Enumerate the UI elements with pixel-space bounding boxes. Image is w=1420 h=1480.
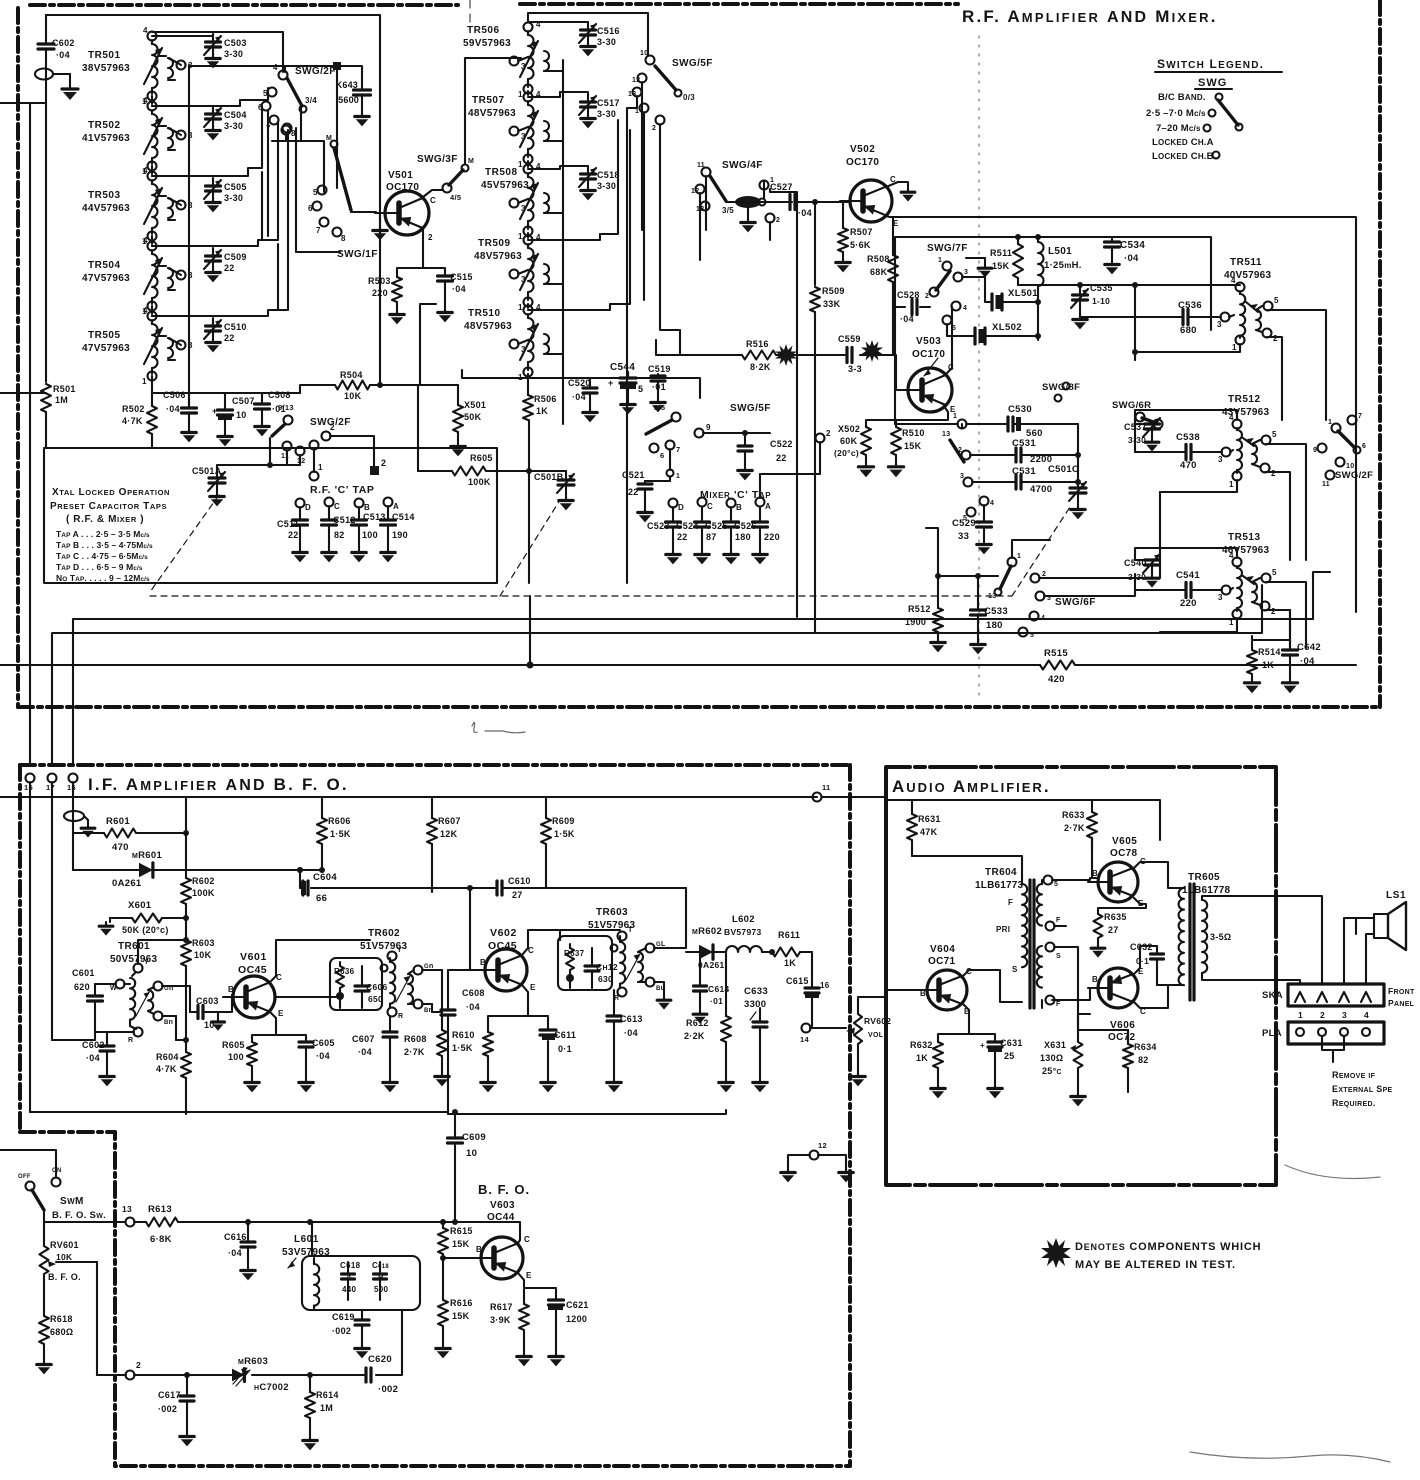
svg-text:B: B xyxy=(476,1245,482,1254)
svg-text:L602: L602 xyxy=(732,914,755,925)
svg-text:220: 220 xyxy=(1180,598,1197,609)
wire rotor to V501 base xyxy=(351,211,376,213)
svg-text:680Ω: 680Ω xyxy=(50,1327,73,1337)
wire TR512 pin4 top xyxy=(1135,410,1237,452)
capacitor C613 ·04 xyxy=(607,990,643,1078)
capacitor C501B trimmer xyxy=(529,471,574,496)
node mixer tap contacts D C B A xyxy=(669,429,832,512)
capacitor C602 ·04 xyxy=(82,1032,114,1072)
svg-text:48V57963: 48V57963 xyxy=(464,321,512,332)
svg-text:1: 1 xyxy=(1017,553,1021,560)
transistor V601 OC45 xyxy=(223,951,284,1018)
resistor R516 8·2K xyxy=(742,339,776,372)
switch SWG/1F rotor xyxy=(326,135,351,210)
svg-text:44V57963: 44V57963 xyxy=(82,203,130,214)
svg-text:SWG/6F: SWG/6F xyxy=(1055,597,1096,608)
wire TR506-510 coil bottom bus xyxy=(527,91,529,395)
svg-text:C559: C559 xyxy=(838,334,861,344)
svg-text:M: M xyxy=(326,135,332,142)
svg-text:C529: C529 xyxy=(952,518,976,529)
wire rotor common to C501A xyxy=(217,438,300,476)
svg-text:C518: C518 xyxy=(597,170,620,180)
svg-text:TAP B . . . 3·5 – 4·75Mc/s: TAP B . . . 3·5 – 4·75Mc/s xyxy=(56,540,153,550)
label R.F. C TAP xyxy=(310,484,375,496)
capacitor C509 22 trimmer xyxy=(204,248,247,282)
svg-text:SWM: SWM xyxy=(60,1196,84,1207)
svg-text:C540: C540 xyxy=(1124,558,1147,568)
wire V605 collector to output transformer xyxy=(1134,862,1182,888)
node terminal 16 xyxy=(67,774,78,793)
svg-text:0A261: 0A261 xyxy=(112,878,142,889)
svg-text:XTAL LOCKED OPERATION: XTAL LOCKED OPERATION xyxy=(52,487,170,498)
svg-text:C610: C610 xyxy=(508,876,531,886)
ground C501A xyxy=(210,492,224,506)
svg-text:·04: ·04 xyxy=(572,392,586,402)
wire V604 collector to primary xyxy=(963,970,1022,1002)
resistor R603 10K xyxy=(181,928,215,995)
resistor R612 2·2K xyxy=(684,952,731,1078)
svg-text:C601: C601 xyxy=(72,968,95,978)
resistor R635 27 xyxy=(1094,898,1147,944)
capacitor C522 22 xyxy=(738,433,793,466)
resistor R631 47K xyxy=(907,814,941,856)
svg-text:12: 12 xyxy=(818,1141,827,1150)
ground C501B xyxy=(559,496,573,510)
capacitor C527 ·04 xyxy=(770,182,848,218)
svg-text:1: 1 xyxy=(318,463,323,472)
svg-text:TR601: TR601 xyxy=(118,941,150,952)
capacitor C601 620 xyxy=(72,968,134,1032)
svg-text:LS1: LS1 xyxy=(1386,890,1406,901)
svg-text:R607: R607 xyxy=(438,816,461,826)
svg-text:3300: 3300 xyxy=(744,999,766,1010)
svg-text:·04: ·04 xyxy=(900,314,914,324)
svg-text:X502: X502 xyxy=(838,424,860,434)
svg-text:L601: L601 xyxy=(294,1234,319,1245)
ground C521 xyxy=(638,508,652,522)
svg-text:5: 5 xyxy=(263,89,268,98)
svg-text:CH12: CH12 xyxy=(596,962,618,972)
transformer TR504 47V57963 xyxy=(82,236,193,316)
svg-text:4: 4 xyxy=(143,26,148,35)
svg-text:+: + xyxy=(608,378,614,388)
resistor R608 2·7K xyxy=(404,970,447,1072)
svg-text:9: 9 xyxy=(1313,447,1317,454)
svg-text:1: 1 xyxy=(1229,480,1234,489)
inductor L601 53V57963 xyxy=(282,1234,420,1310)
svg-text:C509: C509 xyxy=(224,252,247,262)
svg-text:F: F xyxy=(1056,1001,1061,1008)
wire V503 collector up xyxy=(946,307,952,374)
svg-text:4: 4 xyxy=(990,500,994,507)
svg-text:4·7K: 4·7K xyxy=(156,1064,177,1074)
svg-text:C618: C618 xyxy=(340,1261,361,1270)
svg-text:3: 3 xyxy=(1218,455,1223,464)
svg-text:C533: C533 xyxy=(984,606,1008,617)
svg-text:C541: C541 xyxy=(1176,570,1200,581)
svg-text:220: 220 xyxy=(372,288,388,298)
wire L601 internal xyxy=(312,1222,362,1318)
svg-text:6·8K: 6·8K xyxy=(150,1234,172,1245)
svg-text:2: 2 xyxy=(1320,1010,1325,1020)
svg-text:C525: C525 xyxy=(705,521,728,531)
capacitor C621 1200 xyxy=(548,1300,589,1352)
svg-text:13: 13 xyxy=(988,593,996,600)
label SWG/4F xyxy=(722,160,763,171)
wire V603 base xyxy=(443,1257,472,1259)
capacitor C516 3-30 trimmer xyxy=(579,22,620,56)
svg-text:R631: R631 xyxy=(918,814,941,824)
capacitor C603 10 xyxy=(162,986,232,1040)
speaker LS1 xyxy=(1344,890,1406,982)
ground R635 xyxy=(1091,944,1105,958)
ground C603 xyxy=(212,1012,225,1031)
capacitor C609 10 xyxy=(448,1109,486,1222)
svg-text:R606: R606 xyxy=(328,816,351,826)
svg-text:4: 4 xyxy=(963,305,967,312)
svg-text:R.F. AMPLIFIER AND MIXER.: R.F. AMPLIFIER AND MIXER. xyxy=(962,7,1218,26)
svg-text:V501: V501 xyxy=(388,170,413,181)
wire emitter bias rail xyxy=(1078,1014,1128,1042)
svg-text:25°C: 25°C xyxy=(1042,1066,1062,1076)
capacitor C559 3-3 xyxy=(838,334,862,374)
inductor ferrite bead xyxy=(735,196,792,208)
transformer TR503 44V57963 xyxy=(82,166,193,246)
svg-text:5: 5 xyxy=(952,325,956,332)
wire RF section outer dash-dot border right xyxy=(1378,0,1382,707)
capacitor C513 100 xyxy=(352,507,386,548)
svg-text:TR602: TR602 xyxy=(368,928,400,939)
capacitor C517 3-30 trimmer xyxy=(579,94,620,128)
capacitor C632 0·1 xyxy=(1130,942,1168,985)
capacitor C606 650 xyxy=(355,966,388,1008)
wire TR511 pin1 down xyxy=(1132,344,1240,360)
svg-text:R618: R618 xyxy=(50,1314,73,1324)
svg-text:0·1: 0·1 xyxy=(1136,956,1149,966)
wire SWG/6F wiring xyxy=(1012,492,1160,596)
svg-text:C508: C508 xyxy=(268,390,291,400)
svg-text:87: 87 xyxy=(706,532,717,542)
svg-text:100: 100 xyxy=(362,530,378,540)
svg-text:B. F. O. SW.: B. F. O. SW. xyxy=(52,1210,106,1221)
capacitor C523 22 xyxy=(647,507,688,550)
wire SWM wiring xyxy=(0,1150,125,1222)
svg-text:RV602: RV602 xyxy=(864,1016,891,1026)
svg-text:B: B xyxy=(228,985,234,994)
svg-text:6: 6 xyxy=(1362,443,1366,450)
node terminal 15 xyxy=(24,774,35,793)
svg-text:C: C xyxy=(430,196,436,205)
ground bead xyxy=(741,208,755,232)
svg-text:2: 2 xyxy=(428,233,433,242)
svg-text:F: F xyxy=(1056,917,1061,924)
svg-text:1LB61773: 1LB61773 xyxy=(975,880,1024,891)
ground IF input xyxy=(81,824,95,838)
svg-text:33: 33 xyxy=(958,531,969,542)
svg-text:1: 1 xyxy=(1298,1010,1303,1020)
title AUDIO AMPLIFIER xyxy=(892,777,1051,796)
label SWG/8F xyxy=(1042,382,1080,402)
capacitor C508 ·01 xyxy=(255,390,291,422)
svg-text:1K: 1K xyxy=(536,406,548,416)
capacitor C507 10 electrolytic xyxy=(212,396,255,432)
transformer TR511 40V57963 xyxy=(1217,257,1279,352)
svg-text:SWG/4F: SWG/4F xyxy=(722,160,763,171)
svg-text:·002: ·002 xyxy=(332,1326,351,1336)
svg-text:R510: R510 xyxy=(902,428,925,438)
wire terminal 16 drop xyxy=(30,782,73,1112)
ground TR603 secondary xyxy=(657,996,671,1010)
capacitor C519 ·01 xyxy=(648,364,671,398)
capacitor C617 ·002 xyxy=(158,1375,194,1432)
capacitor C536 680 xyxy=(1080,300,1221,336)
capacitor C525 180 xyxy=(705,507,751,550)
svg-text:V605: V605 xyxy=(1112,836,1137,847)
svg-text:R615: R615 xyxy=(450,1226,473,1236)
svg-text:C619: C619 xyxy=(332,1312,355,1322)
transformer TR604 1LB61773 xyxy=(975,867,1061,1008)
wire V503 emitter legs xyxy=(866,406,948,427)
svg-text:OC170: OC170 xyxy=(846,157,879,168)
ground C619 xyxy=(355,1344,369,1358)
resistor X502 60K xyxy=(834,424,871,462)
svg-text:C503: C503 xyxy=(224,38,247,48)
wire V606 emitter xyxy=(1134,946,1157,974)
label SWG/2F right xyxy=(1335,470,1373,481)
svg-text:4: 4 xyxy=(1229,551,1234,560)
capacitor C515 ·04 xyxy=(438,272,473,308)
svg-text:V601: V601 xyxy=(240,951,267,963)
node terminal 14 xyxy=(800,1024,836,1045)
svg-text:4700: 4700 xyxy=(1030,484,1052,495)
svg-text:C521: C521 xyxy=(622,470,645,480)
svg-text:C514: C514 xyxy=(392,512,415,522)
svg-text:50K (20°c): 50K (20°c) xyxy=(122,925,169,935)
resistor R601 470 xyxy=(73,816,189,853)
svg-text:5600: 5600 xyxy=(338,95,359,105)
wire oscillator to TR511 pin4 xyxy=(1038,282,1240,360)
svg-text:OFF: OFF xyxy=(18,1174,31,1180)
svg-text:C611: C611 xyxy=(554,1030,576,1040)
svg-text:2: 2 xyxy=(1271,607,1276,616)
pencil mark artifact bottom right xyxy=(1190,1165,1390,1462)
svg-text:R512: R512 xyxy=(908,604,931,614)
capacitor C521 22 xyxy=(622,470,670,508)
svg-text:AUDIO AMPLIFIER.: AUDIO AMPLIFIER. xyxy=(892,777,1051,796)
svg-text:PRI: PRI xyxy=(996,925,1010,934)
svg-text:10K: 10K xyxy=(344,391,362,401)
wire C604 line to V602 xyxy=(460,887,686,889)
svg-text:·04: ·04 xyxy=(466,1002,480,1012)
svg-text:4: 4 xyxy=(273,63,278,72)
svg-text:D: D xyxy=(305,503,311,512)
svg-text:4: 4 xyxy=(1229,413,1234,422)
svg-text:TR605: TR605 xyxy=(1188,872,1220,883)
transistor V606 OC72 xyxy=(1088,967,1146,1043)
svg-text:R604: R604 xyxy=(156,1052,179,1062)
svg-text:2: 2 xyxy=(1273,334,1278,343)
svg-text:Y: Y xyxy=(144,959,149,966)
svg-text:·04: ·04 xyxy=(86,1053,100,1063)
svg-text:·002: ·002 xyxy=(378,1384,398,1395)
svg-text:R614: R614 xyxy=(316,1390,339,1400)
svg-text:22: 22 xyxy=(628,487,639,497)
thermistor X601 50K xyxy=(110,900,189,935)
svg-text:PRESET CAPACITOR TAPS: PRESET CAPACITOR TAPS xyxy=(50,501,167,512)
ground C523 xyxy=(666,550,680,564)
svg-text:C602: C602 xyxy=(52,38,75,48)
svg-text:2: 2 xyxy=(381,458,386,468)
svg-text:R514: R514 xyxy=(1258,647,1281,657)
transformer TR501 38V57963 xyxy=(82,26,193,106)
ground R605 xyxy=(245,1078,259,1092)
svg-text:C515: C515 xyxy=(450,272,473,282)
svg-text:R605: R605 xyxy=(222,1040,245,1050)
svg-text:440: 440 xyxy=(342,1285,356,1294)
svg-text:R609: R609 xyxy=(552,816,575,826)
wire oscillator supply rect xyxy=(895,234,1211,330)
svg-text:V603: V603 xyxy=(490,1200,515,1211)
svg-text:8: 8 xyxy=(341,234,346,243)
resistor R605 100 xyxy=(222,1040,257,1078)
svg-text:C602: C602 xyxy=(82,1040,105,1050)
transistor V605 OC78 xyxy=(1088,836,1146,908)
svg-text:R.F. 'C' TAP: R.F. 'C' TAP xyxy=(310,484,375,496)
resistor R616 15K xyxy=(438,1255,473,1344)
resistor R607 12K xyxy=(427,816,461,892)
capacitor C503 3-30 trimmer xyxy=(204,34,247,68)
ground C515 xyxy=(438,308,452,322)
ground C512 xyxy=(322,548,336,562)
svg-text:A: A xyxy=(393,502,399,511)
svg-text:10: 10 xyxy=(640,50,648,57)
svg-text:3-30: 3-30 xyxy=(224,121,243,131)
svg-text:C501A: C501A xyxy=(192,466,222,476)
svg-text:0A261: 0A261 xyxy=(698,960,725,970)
resistor R614 1M xyxy=(305,1375,339,1436)
svg-text:47V57963: 47V57963 xyxy=(82,273,130,284)
svg-text:·04: ·04 xyxy=(798,208,812,218)
svg-text:420: 420 xyxy=(1048,674,1065,685)
svg-text:C528: C528 xyxy=(897,290,920,300)
svg-text:I.F. AMPLIFIER AND B. F. O.: I.F. AMPLIFIER AND B. F. O. xyxy=(88,775,349,794)
svg-text:+: + xyxy=(212,406,218,416)
node terminal 12 xyxy=(810,1141,827,1160)
svg-text:100: 100 xyxy=(228,1052,244,1062)
node 2 mixer tap xyxy=(0,0,1,1)
svg-text:R610: R610 xyxy=(452,1030,475,1040)
resistor R506 1K xyxy=(523,394,557,420)
transformer TR508 45V57963 xyxy=(481,162,550,241)
svg-text:22: 22 xyxy=(677,532,688,542)
capacitor C544 5 electrolytic xyxy=(608,362,643,400)
transformer TR507 48V57963 xyxy=(468,90,550,169)
svg-text:11: 11 xyxy=(822,783,831,792)
ground aerial xyxy=(62,84,78,100)
wire R633 bias down xyxy=(1092,838,1096,878)
node terminal 17 xyxy=(46,774,57,793)
resistor R613 6·8K xyxy=(134,1204,458,1245)
svg-text:16: 16 xyxy=(820,981,830,990)
transistor V501 OC170 xyxy=(375,170,429,235)
capacitor C619 ·002 xyxy=(332,1312,369,1344)
capacitor C618A 440 xyxy=(340,1261,361,1300)
svg-text:1·5K: 1·5K xyxy=(330,829,351,839)
capacitor C505 3-30 trimmer xyxy=(204,178,247,212)
svg-text:C522: C522 xyxy=(770,439,793,449)
svg-text:C631: C631 xyxy=(1000,1038,1023,1048)
svg-text:Bn: Bn xyxy=(164,1019,173,1026)
ground RV602 xyxy=(851,1072,865,1086)
resistor R609 1·5K xyxy=(541,816,575,888)
capacitor C631 25 electrolytic xyxy=(980,1038,1023,1084)
svg-text:Y: Y xyxy=(397,947,402,954)
ground X631 xyxy=(1071,1092,1085,1106)
svg-text:1-10: 1-10 xyxy=(1092,296,1110,306)
wire terminal 12 grounds xyxy=(788,1155,846,1168)
svg-text:C617: C617 xyxy=(158,1390,181,1400)
svg-text:OC72: OC72 xyxy=(1108,1032,1135,1043)
svg-text:3-3: 3-3 xyxy=(848,364,862,374)
label SWG/6F xyxy=(1055,597,1096,608)
svg-text:LOCKED CH.B: LOCKED CH.B xyxy=(1152,151,1214,162)
wire V601 collector xyxy=(270,940,370,982)
wire V602 emitter xyxy=(488,985,548,1032)
svg-text:5: 5 xyxy=(313,188,318,197)
svg-text:T: T xyxy=(628,927,633,934)
wire input to left bus xyxy=(0,62,46,382)
transformer TR512 43V57963 xyxy=(1218,394,1277,489)
switch legend entries xyxy=(1146,92,1243,162)
ground C508 xyxy=(255,422,269,436)
transformer TR502 41V57963 xyxy=(82,96,193,176)
label SWG/2F xyxy=(295,66,336,77)
wire RF section outer dash-dot border top xyxy=(30,4,958,5)
svg-text:VOL: VOL xyxy=(868,1032,884,1039)
svg-text:R503: R503 xyxy=(368,276,391,286)
resistor R511 15K xyxy=(990,237,1023,285)
capacitor C524 87 xyxy=(676,507,717,550)
aerial trim oval xyxy=(64,811,88,824)
asterisk C559 xyxy=(861,340,883,362)
svg-text:V602: V602 xyxy=(490,927,517,939)
svg-text:A: A xyxy=(346,1273,352,1282)
svg-text:11: 11 xyxy=(697,162,705,169)
svg-text:1: 1 xyxy=(1232,343,1237,352)
svg-text:1M: 1M xyxy=(55,395,68,405)
wire contact 9 to C522 xyxy=(695,423,771,438)
capacitor C633 3300 xyxy=(744,986,768,1078)
title I.F. AMPLIFIER AND B.F.O. xyxy=(88,775,349,794)
svg-text:TR510: TR510 xyxy=(468,308,501,319)
svg-text:R504: R504 xyxy=(340,370,363,380)
svg-text:R608: R608 xyxy=(404,1034,427,1044)
wire trimmer top connections xyxy=(152,34,213,316)
svg-text:OC45: OC45 xyxy=(238,964,267,976)
svg-text:5: 5 xyxy=(1054,881,1058,888)
svg-text:27: 27 xyxy=(1108,925,1119,935)
svg-text:TR513: TR513 xyxy=(1228,532,1261,543)
label remove if external speaker required xyxy=(1332,1070,1393,1108)
resistor R610 1·5K xyxy=(452,1030,493,1078)
ground C633 xyxy=(753,1078,767,1092)
asterisk R516 xyxy=(775,344,797,366)
label SWG/5F xyxy=(672,58,713,69)
wire RV602 top xyxy=(858,997,886,1014)
capacitor C616 ·04 xyxy=(224,1222,255,1266)
svg-text:220: 220 xyxy=(764,532,780,542)
svg-text:TR505: TR505 xyxy=(88,330,121,341)
